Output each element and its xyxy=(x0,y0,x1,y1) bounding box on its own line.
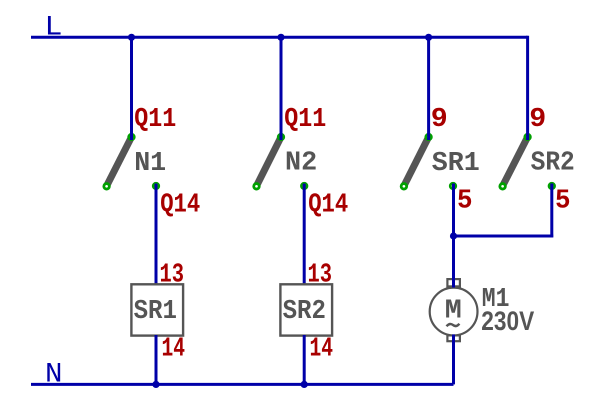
svg-text:SR1: SR1 xyxy=(134,297,177,327)
wire from L rail to SR1 contact xyxy=(427,37,430,140)
svg-text:SR2: SR2 xyxy=(283,297,326,327)
svg-text:M: M xyxy=(445,296,462,326)
svg-text:N2: N2 xyxy=(285,149,317,179)
junction N rail branch 1 xyxy=(152,381,159,388)
relay coil SR1 xyxy=(131,284,183,335)
wire from SR2 coil to N rail xyxy=(303,335,306,384)
svg-text:L: L xyxy=(45,12,63,43)
svg-text:SR2: SR2 xyxy=(531,149,575,179)
svg-text:N1: N1 xyxy=(134,149,166,179)
svg-text:230V: 230V xyxy=(481,307,534,336)
junction L rail branch 3 xyxy=(425,34,432,41)
junction N rail branch 2 xyxy=(301,381,308,388)
switch Q11/N2 xyxy=(254,134,307,189)
wire from motor bottom terminal to N rail xyxy=(452,335,455,385)
wire from motor node into motor top terminal xyxy=(452,236,455,288)
svg-text:9: 9 xyxy=(431,105,448,135)
wire from SR2 contact down to motor node xyxy=(550,184,553,238)
svg-text:Q11: Q11 xyxy=(284,105,326,135)
relay contact SR1 (9/5) xyxy=(401,134,456,189)
junction motor node xyxy=(450,232,457,239)
wire from SR1 coil to N rail xyxy=(155,335,158,384)
wire joining SR2 contact branch to motor node xyxy=(454,235,554,238)
svg-text:Q14: Q14 xyxy=(308,191,348,221)
switch Q11/N1 xyxy=(104,134,159,189)
svg-text:Q14: Q14 xyxy=(160,191,200,221)
svg-text:14: 14 xyxy=(310,334,334,364)
svg-text:Q11: Q11 xyxy=(134,105,176,135)
svg-text:5: 5 xyxy=(555,187,571,217)
svg-text:9: 9 xyxy=(529,105,546,135)
junction L rail branch 2 xyxy=(277,34,284,41)
svg-text:5: 5 xyxy=(457,187,473,217)
svg-text:SR1: SR1 xyxy=(432,149,480,179)
wire from Q11/N2 to relay coil SR2 xyxy=(303,184,306,288)
wire from L rail to Q11/N2 xyxy=(280,37,283,140)
wire from Q11/N1 to relay coil SR1 xyxy=(155,184,158,288)
wire from L rail corner down to SR2 contact xyxy=(526,36,529,140)
wire: N neutral rail xyxy=(31,383,454,386)
junction L rail branch 1 xyxy=(128,34,135,41)
wire: L supply rail xyxy=(31,36,528,39)
wire from SR1 contact to motor node xyxy=(452,184,455,288)
svg-text:14: 14 xyxy=(162,334,186,364)
wire from L rail to Q11/N1 xyxy=(130,37,133,140)
relay coil SR2 xyxy=(280,284,332,335)
relay contact SR2 (9/5) xyxy=(500,134,555,189)
svg-text:N: N xyxy=(45,359,63,390)
motor M1 xyxy=(430,279,478,341)
